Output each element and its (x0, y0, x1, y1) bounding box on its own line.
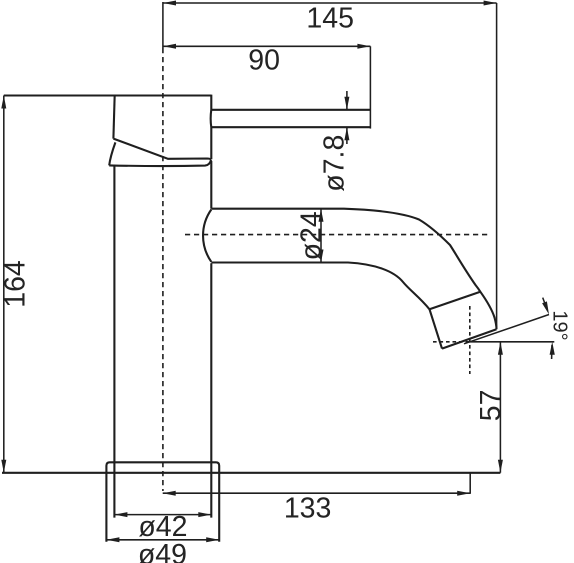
body right edge upper segment (210, 161, 212, 209)
arrowhead 90 left (163, 44, 176, 49)
arrowhead 90 right (357, 44, 370, 49)
outlet vertical centerline (dashed) (469, 306, 471, 374)
svg-text:164: 164 (0, 260, 32, 308)
arrowhead 19deg vertical (550, 342, 555, 355)
arrowhead ø7.8 bottom (344, 127, 349, 140)
svg-text:133: 133 (284, 493, 332, 525)
base flange outline (106, 462, 219, 473)
angle arrow tail on diagonal (543, 298, 547, 308)
svg-text:19°: 19° (549, 310, 571, 340)
arrowhead ø24 top (319, 209, 324, 222)
lever handle bottom edge (211, 126, 370, 128)
extension line right of 90 to lever end (369, 46, 371, 128)
body centerline (dashed) (162, 48, 164, 491)
svg-text:ø24: ø24 (295, 211, 327, 260)
svg-text:ø49: ø49 (138, 539, 187, 563)
extension line right of 145 down to outlet tip (496, 3, 498, 329)
spout outlet face line (442, 329, 497, 348)
arrowhead 57 top (498, 342, 503, 355)
angle dimension 19-degree ray (464, 315, 549, 344)
body right edge lower segment with ø42 extension (210, 263, 212, 517)
extension line left of 145/90 (162, 2, 164, 48)
spout bottom edge (211, 263, 442, 349)
arrowhead 133 left (163, 491, 176, 496)
outlet horizontal centerline (dashed) (433, 341, 467, 343)
arrowhead ø42 left (114, 512, 127, 517)
arrowhead ø49 left (106, 537, 119, 542)
dimension line 57 (499, 342, 501, 473)
dimension line ø42 (114, 514, 211, 516)
base flange right edge ø49 extension (218, 473, 220, 542)
base flange left edge ø49 extension (105, 473, 107, 542)
dimension stub ø7.8 below lever (346, 127, 348, 144)
dimension line 133 (163, 492, 471, 494)
faucet neck flare arc (109, 142, 115, 165)
faucet head slanted bottom edge (113, 139, 211, 160)
svg-text:90: 90 (248, 45, 280, 77)
arrowhead ø7.8 top (344, 97, 349, 110)
lever handle top edge (211, 109, 370, 111)
arrowhead ø42 right (198, 512, 211, 517)
spout top edge (211, 209, 496, 330)
dimension line 90 (163, 45, 370, 47)
arrowhead 164 top (1, 96, 6, 109)
arrowhead 19deg on diagonal (542, 301, 549, 314)
arrowhead 133 right (457, 491, 470, 496)
spout centerline (dashed) (185, 234, 489, 236)
body top ellipse edge (109, 160, 211, 166)
svg-text:ø7.8: ø7.8 (319, 135, 351, 192)
svg-text:145: 145 (306, 2, 354, 34)
faucet head right edge (210, 95, 213, 160)
dimension line 145 (163, 2, 497, 4)
body left edge with ø42 extension (113, 166, 115, 518)
spout root saddle arc (203, 210, 211, 262)
svg-text:57: 57 (475, 390, 507, 422)
angle baseline ray 19 degrees (467, 341, 554, 343)
arrowhead 145 right (484, 1, 497, 6)
arrowhead 164 bottom (1, 460, 6, 473)
spout aerator joint line (430, 292, 481, 310)
dimension stub ø7.8 above lever (346, 91, 348, 110)
extension line for 133 right end (469, 473, 471, 494)
arrowhead ø49 right (206, 537, 219, 542)
mounting deck line (2, 472, 500, 474)
arrowhead 145 left (163, 1, 176, 6)
faucet head (cartridge housing) top edge with 164 extension line (4, 94, 212, 96)
faucet head left edge (113, 95, 114, 139)
arrowhead ø24 bottom (319, 250, 324, 263)
dimension line 164 (3, 96, 5, 473)
angle arrow tail vertical (551, 345, 553, 359)
dimension line ø49 (106, 539, 219, 541)
dimension line ø24 (320, 209, 322, 263)
arrowhead 57 bottom (498, 460, 503, 473)
